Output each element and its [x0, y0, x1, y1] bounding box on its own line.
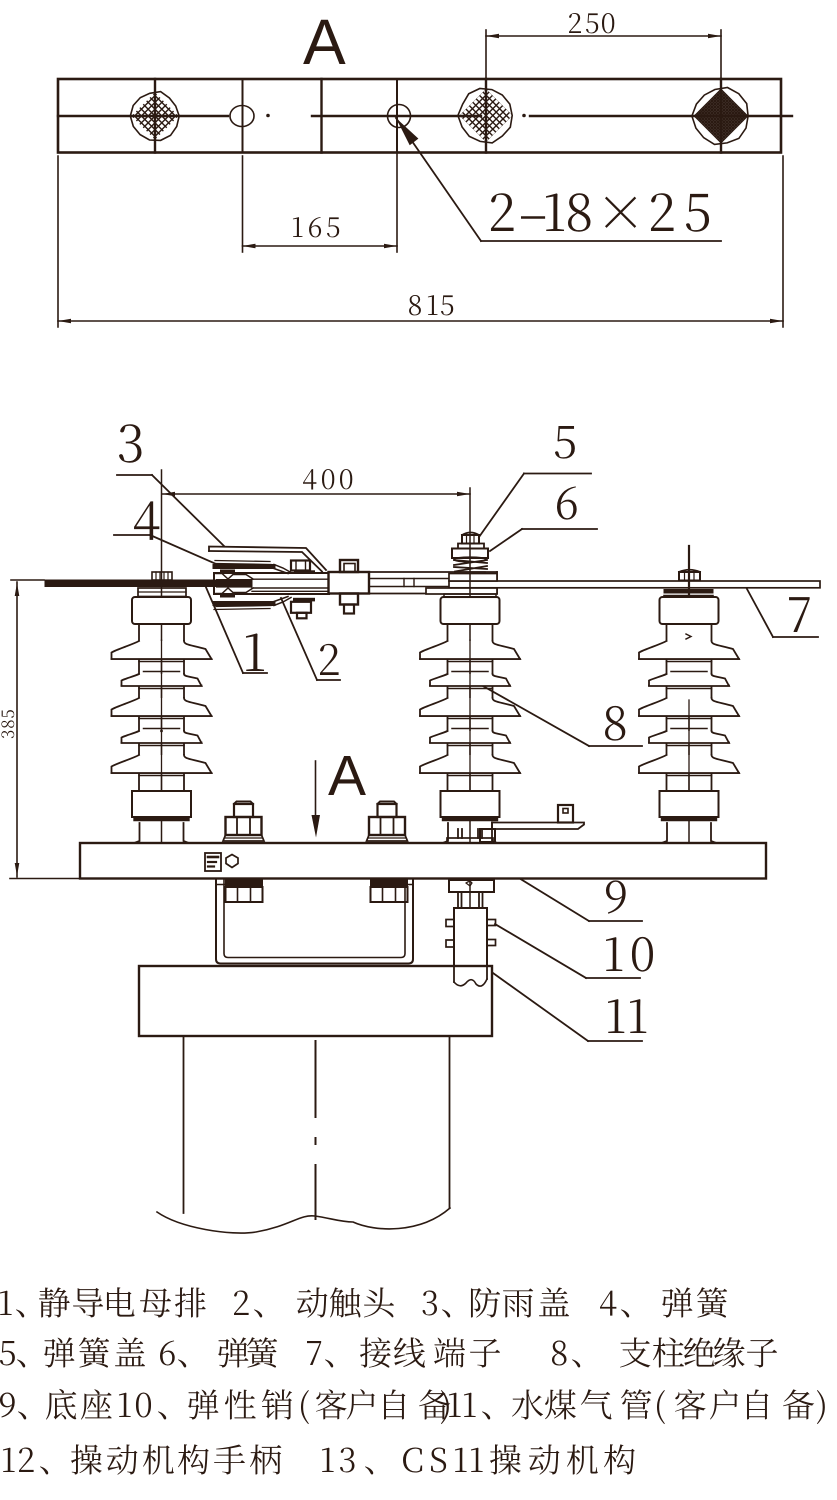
- dimension 250 line: [486, 34, 721, 39]
- spring cover nut item5: [462, 533, 479, 544]
- top view small ellipse hole: [230, 106, 254, 127]
- upper contact strip: [215, 561, 291, 574]
- bracket plate on base: [492, 823, 584, 830]
- top view section label A: [303, 6, 346, 78]
- right insulator top nut: [679, 570, 700, 581]
- middle rotating post insulator: [420, 597, 520, 843]
- callout 5 text: [555, 426, 575, 459]
- callout 2 leader: [281, 598, 340, 680]
- section label A elevation: [328, 744, 366, 808]
- middle insulator top rings: [444, 594, 496, 597]
- pivot block bottom nut: [340, 594, 358, 614]
- pole left edge: [183, 1036, 185, 1213]
- pipe twin studs: [458, 892, 483, 908]
- legend line 3: [0, 1389, 825, 1424]
- spring base washer: [455, 572, 485, 575]
- left insulator centerline: [161, 470, 163, 877]
- pipe end over crossarm: [454, 967, 487, 986]
- callout 7 text: [789, 597, 810, 632]
- dimension 400 line: [162, 492, 470, 497]
- legend line 4: [3, 1444, 635, 1475]
- top view bar partition line x721: [720, 79, 722, 153]
- spring cover washer: [458, 544, 484, 549]
- blade tip inside housing: [216, 579, 252, 588]
- top view mounting bar outline: [58, 79, 781, 153]
- top view hatched hole left: [36, 92, 274, 141]
- arm top plate: [449, 574, 497, 582]
- pole chain centerline: [315, 1041, 317, 1219]
- pole right edge: [449, 1036, 451, 1208]
- bracket tab with hole: [558, 805, 573, 823]
- callout 8 leader: [483, 686, 642, 746]
- middle insulator centerline: [469, 488, 471, 908]
- base plate hex hole: [226, 855, 238, 868]
- dimension 385 text: [1, 710, 14, 738]
- top view bar chain centerline: [58, 114, 792, 118]
- top view bar partition line x486: [485, 79, 487, 153]
- arm bottom plate: [426, 588, 497, 594]
- base plate item9: [80, 843, 766, 879]
- callout 8 text: [605, 706, 625, 741]
- right insulator washer dark band: [664, 590, 713, 596]
- left insulator centerline overlay: [160, 640, 163, 791]
- under-plate nut left: [226, 880, 263, 902]
- contact bolt upper: [291, 561, 315, 574]
- dimension 385 extension top: [11, 579, 44, 581]
- rain cover item3: [209, 547, 326, 572]
- callout 10 text: [606, 937, 653, 972]
- spring cover item5 plate: [452, 549, 488, 559]
- callout 6 text: [557, 486, 577, 519]
- hole callout text 2-18x25: [491, 193, 709, 232]
- elastic pin tabs item10: [446, 920, 496, 948]
- middle pedestal studs: [458, 829, 482, 838]
- legend line 2: [0, 1337, 777, 1367]
- bracket stub left: [480, 829, 495, 842]
- callout 3 leader: [117, 475, 224, 546]
- left insulator top rings: [138, 588, 186, 597]
- callout 4 leader: [114, 535, 216, 564]
- callout 7 leader: [747, 589, 818, 637]
- middle insulator centerline overlay: [469, 640, 471, 791]
- right insulator centerline: [688, 546, 690, 853]
- dimension 815 line: [58, 319, 783, 324]
- top view hatched hole middle: [357, 89, 615, 143]
- static busbar blade item1: [45, 580, 252, 587]
- top view bar partition line x242: [242, 79, 244, 153]
- pivot block: [329, 572, 370, 594]
- callout 11 text: [608, 999, 646, 1033]
- callout 9 leader: [483, 856, 642, 921]
- callout 3 text: [119, 424, 141, 463]
- jaw mouth notches: [216, 574, 253, 594]
- top view bar partition line x321: [320, 79, 322, 153]
- top view hatched hole right dense: [582, 88, 837, 145]
- dimension 815 extension lines: [58, 156, 783, 327]
- callout 2 text: [320, 644, 339, 675]
- pivot block top bolt: [340, 560, 358, 572]
- top view bar partition line x155: [154, 79, 156, 153]
- dimension 250 extension lines: [486, 30, 721, 79]
- washer plate under middle insulator: [447, 838, 493, 843]
- terminal bar item7: [449, 581, 820, 588]
- right insulator centerline overlay: [686, 634, 691, 791]
- under-plate nut right: [371, 880, 408, 902]
- dimension 385 line: [15, 582, 20, 877]
- jaw clip bars: [220, 570, 235, 598]
- callout 5 leader: [479, 474, 591, 538]
- callout 4 text: [134, 501, 159, 540]
- pole bottom break wave: [157, 1208, 450, 1233]
- dimension 815 text: [409, 295, 453, 315]
- arm to center post: [369, 572, 497, 594]
- lower contact strip: [214, 597, 291, 610]
- pipe collar: [449, 880, 494, 892]
- left support insulator item8a: [112, 597, 212, 843]
- legend line 1: [0, 1287, 727, 1318]
- callout 1 text: [246, 633, 264, 671]
- mounting bolt left on plate: [223, 802, 264, 842]
- u-channel bracket: [216, 879, 413, 964]
- dimension 400 text: [303, 469, 352, 489]
- svg-text:A: A: [328, 744, 366, 808]
- top view bar partition line x397: [396, 79, 398, 153]
- section arrow A: [312, 761, 321, 838]
- callout 10 leader: [495, 924, 640, 978]
- svg-text:A: A: [303, 6, 346, 78]
- dimension 165 line: [243, 244, 398, 249]
- right support insulator item8b: [639, 597, 739, 843]
- callout 11 leader: [486, 968, 642, 1041]
- callout 6 leader: [490, 529, 597, 551]
- base plate label icon: [205, 853, 221, 871]
- contact bolt lower: [291, 598, 315, 619]
- dimension 385 extension bottom: [10, 878, 79, 880]
- moving contact housing item2: [214, 573, 329, 594]
- mounting bolt right on plate: [367, 802, 408, 842]
- top view small circle hole 18mm: [388, 105, 411, 128]
- callout 9 text: [606, 880, 626, 913]
- left insulator top ribbed washer: [152, 572, 172, 580]
- dimension 165 text: [293, 217, 339, 237]
- pole crossarm: [139, 966, 492, 1036]
- leader arrow for hole callout: [396, 118, 721, 241]
- spring item6 coils: [454, 557, 487, 571]
- callout 1 leader: [205, 585, 267, 673]
- water-gas pipe item11: [454, 908, 487, 967]
- dimension 165 extension lines: [243, 127, 398, 252]
- dimension 250 text: [569, 13, 614, 33]
